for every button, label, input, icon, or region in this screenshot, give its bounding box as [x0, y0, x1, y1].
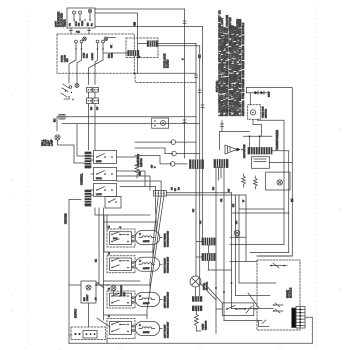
svg-text:COM: COM	[82, 21, 84, 26]
mid verticals bundle	[232, 195, 247, 309]
diagonal harness lower mid	[200, 270, 259, 313]
bus continues below T1	[196, 169, 200, 297]
door latch switch B circles	[96, 40, 99, 43]
terminal strip T2	[214, 160, 228, 168]
vertical bus x196	[195, 44, 197, 159]
inline component box on runs	[152, 118, 169, 128]
door lock motor M1	[190, 276, 201, 287]
svg-text:LATCH: LATCH	[91, 53, 94, 60]
row1 top wire	[104, 215, 156, 222]
svg-text:LAMP: LAMP	[51, 139, 54, 146]
svg-text:LIGHT: LIGHT	[87, 294, 89, 301]
svg-text:SURFACE UNIT: SURFACE UNIT	[167, 291, 170, 308]
dashed stub below door lock box	[135, 73, 196, 82]
svg-text:BK: BK	[291, 198, 294, 202]
relay coil RC2	[202, 254, 215, 261]
spark module connector CN3	[292, 307, 305, 329]
oven indicator box	[81, 281, 96, 303]
svg-text:1. DISCONNECT RANGE FROM POWER: 1. DISCONNECT RANGE FROM POWER SUPPLY BE…	[218, 10, 221, 116]
pin row wires right	[167, 193, 247, 195]
svg-text:CONTROL: CONTROL	[81, 173, 84, 185]
svg-text:MODULE: MODULE	[290, 287, 293, 298]
svg-text:RIGHT FRONT: RIGHT FRONT	[165, 257, 167, 273]
wires into module	[224, 262, 276, 321]
svg-text:L1 N: L1 N	[76, 21, 78, 26]
oven lamp branch	[57, 117, 85, 163]
wire relay K2 to resistor	[117, 156, 138, 158]
margin artifacts right	[315, 5, 317, 345]
svg-text:REMOVING ANY WIRE FROM A TERMI: REMOVING ANY WIRE FROM A TERMINAL OR CON…	[221, 17, 224, 116]
relay K2	[94, 151, 117, 164]
row3 top wire	[99, 281, 150, 285]
svg-text:L1: L1	[109, 314, 111, 317]
terminal circle TC2	[172, 151, 177, 156]
svg-text:N.C.: N.C.	[109, 53, 111, 58]
wires door lock box to bus	[157, 44, 199, 46]
ignitor wires	[253, 119, 284, 244]
svg-text:SENSOR: SENSOR	[206, 320, 208, 330]
row4 side wires	[107, 315, 162, 343]
sensor resistor R3	[254, 176, 258, 189]
svg-text:SWITCH: SWITCH	[141, 158, 143, 167]
switch B stems and dots	[98, 43, 104, 48]
svg-text:BAKE: BAKE	[96, 160, 102, 163]
svg-text:BK: BK	[233, 204, 235, 207]
svg-text:TIMER: TIMER	[64, 19, 67, 27]
wall plug cluster	[75, 84, 79, 88]
svg-text:GY: GY	[229, 188, 231, 192]
wire drops below T2	[216, 168, 224, 334]
svg-text:LEFT REAR: LEFT REAR	[164, 296, 167, 308]
wires to terminal circles	[135, 142, 172, 164]
spark electrode assembly	[219, 131, 249, 149]
svg-text:OR: OR	[200, 220, 202, 224]
svg-text:423: 423	[134, 21, 137, 26]
door lock board connector J1	[128, 51, 139, 56]
svg-text:LEFT FRONT: LEFT FRONT	[165, 324, 167, 338]
svg-text:1250W: 1250W	[143, 268, 149, 270]
wire clock to right bus y10	[95, 8, 185, 10]
svg-text:P2: P2	[70, 23, 72, 26]
svg-text:BROIL: BROIL	[96, 178, 103, 180]
control board connector CN1	[85, 152, 91, 168]
svg-text:ASSY: ASSY	[55, 21, 58, 27]
svg-text:N.O.: N.O.	[87, 53, 89, 58]
svg-text:BU: BU	[91, 107, 93, 110]
power cord dashed terminal	[71, 327, 105, 340]
relay coil RC1	[202, 238, 215, 245]
svg-text:SUPPLY: SUPPLY	[75, 308, 78, 318]
module lower wire	[259, 320, 270, 327]
margin artifacts bottom	[24, 347, 280, 349]
terminal strip T1	[190, 160, 204, 169]
svg-text:L1: L1	[109, 287, 111, 290]
svg-text:NC: NC	[79, 22, 81, 26]
svg-text:LOCK: LOCK	[96, 194, 102, 196]
right enclosure box	[247, 88, 293, 256]
svg-text:SURFACE UNIT: SURFACE UNIT	[167, 321, 170, 338]
svg-text:SERVICING. USE EXTREME CARE WH: SERVICING. USE EXTREME CARE WHEN HANDLIN…	[242, 22, 245, 116]
stub wire BK	[108, 37, 116, 39]
wire run y123.6	[62, 123, 200, 125]
surface switch SW3 dashed	[107, 291, 135, 308]
wire box bottom to bus	[134, 72, 196, 74]
door switch S3	[105, 197, 121, 209]
svg-text:TRANSFORMER: TRANSFORMER	[275, 130, 279, 150]
surface switch SW2 body	[110, 258, 132, 271]
clock switch contact circles	[73, 11, 76, 14]
vertical wire x202.6	[202, 27, 204, 239]
oven sensor resistor R4	[194, 311, 201, 331]
module input switch	[270, 263, 287, 268]
svg-text:P21: P21	[76, 32, 81, 34]
clock assembly K1 box	[67, 8, 95, 28]
wires from connectors left	[103, 44, 147, 53]
surface switch SW3 body	[110, 293, 132, 306]
bottom ground run	[69, 342, 313, 344]
svg-text:COM: COM	[84, 53, 86, 58]
svg-text:W: W	[243, 199, 245, 202]
svg-text:L1: L1	[109, 225, 111, 228]
wire diode down	[249, 93, 251, 105]
svg-text:P1: P1	[92, 23, 94, 26]
surface switch SW2 dashed	[107, 256, 135, 273]
staircase wires into spark module	[230, 245, 292, 257]
svg-text:P5: P5	[175, 188, 177, 191]
door lock board connector J2	[147, 41, 157, 47]
svg-text:4. DO NOT REMOVE OR DAMAGE THE: 4. DO NOT REMOVE OR DAMAGE THE 20,000 VO…	[239, 19, 242, 116]
harness connector block row 1	[87, 88, 93, 93]
svg-text:BOARD: BOARD	[167, 59, 170, 68]
wire clock y13 to x137	[95, 13, 138, 34]
switch A stems and dots	[76, 43, 82, 48]
pin row P4	[154, 191, 167, 197]
svg-text:OVEN: OVEN	[203, 323, 205, 330]
power cord wires	[69, 334, 72, 336]
wire y136.3 junctions	[243, 135, 272, 137]
door lock motor box	[222, 303, 254, 316]
svg-text:SERVICING CONTROLS. WIRING ERR: SERVICING CONTROLS. WIRING ERRORS CAN CA…	[234, 26, 237, 116]
spark module dashed box	[257, 260, 300, 330]
svg-text:RIGHT REAR: RIGHT REAR	[164, 233, 167, 247]
surface element E4	[135, 321, 159, 335]
row1 side wires	[104, 215, 162, 252]
surface switch SW1 dashed	[107, 229, 135, 247]
right area wire runs	[232, 193, 290, 213]
motor box wires	[216, 308, 257, 310]
svg-text:3. CAUTION: LABEL ALL WIRES PR: 3. CAUTION: LABEL ALL WIRES PRIOR TO DIS…	[231, 25, 234, 116]
svg-text:20KV: 20KV	[268, 91, 270, 97]
svg-text:RD: RD	[236, 220, 238, 224]
SW1 terminals circles	[132, 236, 134, 238]
row4 top wire	[104, 314, 148, 316]
door lock board dashed box	[126, 38, 158, 58]
terminal circle TC3	[170, 162, 175, 167]
svg-text:OVEN LIGHT: OVEN LIGHT	[138, 153, 140, 167]
SW4 terminal circles	[132, 325, 134, 327]
module contacts	[273, 303, 283, 313]
vertical bus x199.7	[199, 46, 201, 159]
wires connectors to relays	[91, 156, 94, 195]
surface element E1	[135, 230, 159, 244]
svg-text:IND: IND	[84, 297, 86, 301]
terminal circle TC1	[171, 140, 176, 145]
svg-text:V: V	[155, 166, 157, 168]
svg-text:DOOR: DOOR	[62, 55, 64, 62]
door latch switch A circles	[75, 40, 78, 43]
SW2 terminal circles	[132, 262, 134, 264]
wire relay row to pin row	[117, 171, 162, 191]
wire 423 drop continues	[137, 34, 139, 73]
ignitor electrode	[250, 110, 255, 115]
svg-text:OR: OR	[221, 198, 223, 202]
svg-text:L1 H: L1 H	[113, 238, 118, 240]
svg-text:1250W: 1250W	[143, 303, 149, 305]
svg-text:ELECTRODE: ELECTRODE	[244, 144, 246, 158]
wire run y116.7	[57, 116, 196, 118]
svg-text:COM: COM	[112, 53, 114, 58]
svg-text:GY: GY	[152, 164, 154, 168]
svg-text:OVEN GAS: OVEN GAS	[262, 106, 265, 118]
svg-text:2. REPLACE ALL WIRES AND CLIPS: 2. REPLACE ALL WIRES AND CLIPS TO PROPER…	[224, 27, 227, 116]
svg-text:P6: P6	[179, 187, 181, 190]
control drop wires to rows	[95, 208, 150, 320]
svg-text:IND: IND	[124, 292, 126, 296]
row2 top wire	[104, 251, 153, 253]
svg-text:SURFACE UNIT: SURFACE UNIT	[167, 230, 170, 247]
lower right lamp box	[266, 172, 290, 190]
inline connector on y116.7	[59, 114, 65, 119]
control board connector CN2	[85, 190, 91, 206]
sensor resistor R2	[242, 174, 246, 187]
svg-text:BU: BU	[213, 187, 215, 190]
svg-text:RES: RES	[140, 171, 142, 176]
surface element E2	[135, 257, 159, 271]
relay K3	[94, 168, 117, 181]
svg-text:LATCH: LATCH	[63, 55, 66, 62]
svg-text:AND DANGEROUS OPERATION. VERIF: AND DANGEROUS OPERATION. VERIFY OPERATIO…	[237, 19, 240, 116]
relay coil wires	[196, 242, 209, 271]
relay K4	[94, 184, 117, 197]
margin artifacts pink	[11, 129, 342, 311]
vertical wire x186	[184, 9, 186, 158]
row2 side wires	[153, 246, 162, 264]
svg-text:SURFACE UNIT: SURFACE UNIT	[167, 256, 170, 273]
wire cluster bottom to ground wire	[69, 199, 81, 343]
surface switch SW4 body	[110, 321, 132, 334]
svg-text:P4: P4	[172, 187, 174, 190]
wire clock y26.5 long	[95, 26, 203, 28]
indicator box wires	[69, 283, 99, 327]
spark diode D1 D2	[247, 92, 268, 94]
surface switch SW1 body	[110, 232, 132, 245]
svg-text:H: H	[120, 226, 122, 228]
oven ignitor dashed box	[248, 105, 261, 120]
svg-text:BK: BK	[96, 259, 98, 262]
surface switch SW4 dashed	[107, 319, 135, 339]
wire x222 drop	[221, 121, 223, 132]
svg-text:NO: NO	[88, 22, 90, 26]
sensor blocks mid bottom	[192, 297, 202, 302]
svg-text:SURFACE: SURFACE	[120, 285, 123, 296]
svg-text:SW: SW	[67, 58, 69, 62]
transformer primary winding	[248, 148, 272, 155]
svg-text:BK: BK	[111, 45, 113, 48]
indicator lamp L6	[234, 230, 240, 236]
harness drop wires below door lock box	[69, 73, 95, 84]
transformer secondary box	[251, 157, 269, 169]
clock terminal dots	[73, 19, 91, 21]
svg-text:BK: BK	[193, 209, 195, 212]
harness connector block row 2	[87, 98, 93, 104]
svg-text:BU: BU	[54, 118, 57, 122]
clock bottom pins	[71, 28, 89, 34]
surface element E3	[135, 292, 159, 306]
wire connector to bottom run	[305, 317, 312, 343]
SW3 terminal circles	[132, 297, 134, 299]
svg-text:BK: BK	[199, 54, 202, 58]
resistor R1	[135, 157, 139, 178]
margin artifacts left	[11, 12, 28, 344]
door lock dashed enclosure	[57, 34, 134, 73]
svg-text:2350W: 2350W	[143, 241, 149, 243]
row3 side wires	[150, 285, 162, 300]
svg-text:GROUND: GROUND	[65, 213, 68, 224]
svg-text:2350W: 2350W	[143, 332, 149, 334]
diagonal feeders to surface rows	[147, 196, 164, 315]
clock contact stems	[74, 13, 90, 19]
svg-text:OPERATION AFTER SERVICING IS C: OPERATION AFTER SERVICING IS COMPLETE AN…	[229, 17, 232, 116]
wire transformer right to box edge	[269, 151, 292, 253]
indicator cluster between rows	[95, 283, 110, 289]
oven lamp	[55, 135, 60, 140]
svg-text:GY: GY	[97, 106, 99, 110]
svg-text:IGNITOR: IGNITOR	[266, 109, 268, 118]
